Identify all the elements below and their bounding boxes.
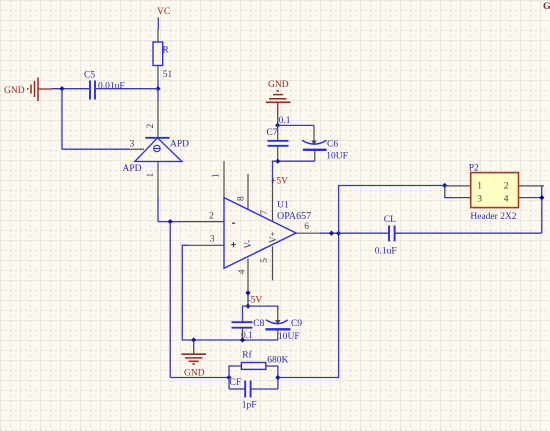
capacitor C7 xyxy=(268,141,289,146)
header P2 pin 2 stub xyxy=(519,185,545,187)
svg-text:3: 3 xyxy=(130,140,135,150)
wire R to node xyxy=(157,79,159,89)
wire node to pin7 xyxy=(273,161,278,185)
svg-text:U1: U1 xyxy=(277,200,289,210)
power port GND left xyxy=(4,78,51,102)
capacitor C8 xyxy=(232,322,253,328)
wire node to APD xyxy=(157,89,159,102)
node output B xyxy=(336,231,341,236)
diode APD pin 2 xyxy=(157,102,159,138)
wire GND stem xyxy=(193,340,195,349)
capacitor C6 pin bottom xyxy=(314,151,316,162)
wire P2 right branch xyxy=(541,186,543,233)
node inverting input junction xyxy=(168,219,173,224)
svg-text:0.1: 0.1 xyxy=(279,116,291,126)
capacitor C7 pin top xyxy=(277,125,279,140)
node ground rail / GND stem xyxy=(191,337,196,342)
svg-text:C9: C9 xyxy=(291,319,302,329)
resistor R1 pin bottom xyxy=(157,66,159,80)
svg-text:1: 1 xyxy=(146,173,156,178)
capacitor C9 pin bottom xyxy=(277,330,279,340)
svg-text:G: G xyxy=(543,1,550,12)
op-amp U1 pin 5 xyxy=(272,246,274,280)
node output A xyxy=(329,231,334,236)
svg-text:8: 8 xyxy=(236,196,246,201)
op-amp U1 inverting marker xyxy=(232,222,235,224)
svg-text:3: 3 xyxy=(477,195,482,205)
resistor R1 pin top xyxy=(157,30,159,43)
svg-text:VC: VC xyxy=(157,7,170,17)
diode APD xyxy=(135,138,182,162)
resistor R1 xyxy=(153,42,163,66)
svg-text:2: 2 xyxy=(146,124,156,129)
svg-text:2: 2 xyxy=(504,181,509,191)
svg-text:0.01uF: 0.01uF xyxy=(98,81,125,91)
wire top rail C8/C9 xyxy=(243,306,278,322)
op-amp U1 pin 4 xyxy=(247,259,249,293)
capacitor C8 pin bottom xyxy=(242,329,244,341)
svg-text:10UF: 10UF xyxy=(278,332,300,342)
svg-text:C5: C5 xyxy=(84,71,95,81)
svg-text:APD: APD xyxy=(123,164,142,174)
wire CF left xyxy=(229,388,244,390)
node Rf/CF right xyxy=(275,375,280,380)
svg-text:Header 2X2: Header 2X2 xyxy=(470,212,516,222)
svg-text:CL: CL xyxy=(384,215,396,225)
diode APD pin 3 xyxy=(129,148,145,150)
power port -5V xyxy=(248,296,263,306)
svg-text:V-: V- xyxy=(243,240,253,249)
wire node down to APD pin3 xyxy=(62,89,129,150)
header P2 body xyxy=(471,173,519,208)
node +5V junction xyxy=(275,159,280,164)
svg-text:2: 2 xyxy=(209,212,214,222)
node P2 pins 2-4 junction xyxy=(539,195,544,200)
wire pin4 to -5V node xyxy=(247,293,249,306)
node C8/C9 top rail junction xyxy=(245,304,250,309)
op-amp U1 non-inverting marker xyxy=(231,242,236,247)
capacitor C9 xyxy=(265,320,290,330)
wire C6 branch top xyxy=(278,124,314,126)
node C5/feedback junction xyxy=(59,86,64,91)
svg-text:3: 3 xyxy=(210,235,215,245)
op-amp U1 pin 8 xyxy=(247,174,249,210)
op-amp U1 pin 1 xyxy=(223,161,225,198)
svg-text:0.1uF: 0.1uF xyxy=(375,246,397,256)
header P2 pin 3 stub xyxy=(452,197,471,199)
capacitor C9 pin arrow xyxy=(275,320,280,325)
diode APD pin 1 xyxy=(157,162,159,197)
svg-text:+5V: +5V xyxy=(271,177,288,187)
power port GND top xyxy=(266,80,291,114)
wire Rf left xyxy=(229,366,241,389)
svg-text:GND: GND xyxy=(184,368,205,378)
svg-text:V+: V+ xyxy=(268,231,278,243)
power port VC xyxy=(157,7,170,30)
wire pin6 to output node xyxy=(320,232,339,234)
svg-text:C7: C7 xyxy=(267,128,278,138)
capacitor C5 xyxy=(90,81,95,100)
op-amp U1 pin 3 xyxy=(189,244,225,246)
wire C5 to node xyxy=(96,88,158,90)
svg-text:51: 51 xyxy=(163,70,173,80)
svg-text:5: 5 xyxy=(260,258,270,263)
svg-text:680K: 680K xyxy=(267,355,288,365)
svg-text:1: 1 xyxy=(211,173,221,178)
op-amp U1 pin 7 xyxy=(272,185,274,222)
wire CF right xyxy=(252,388,278,390)
svg-text:APD: APD xyxy=(170,140,189,150)
node R/C5/APD junction xyxy=(155,86,160,91)
svg-text:C6: C6 xyxy=(327,140,338,150)
capacitor CL xyxy=(389,226,395,242)
wire GND to C5 xyxy=(51,88,89,90)
header P2 pin 4 stub xyxy=(519,197,545,199)
resistor Rf xyxy=(241,363,265,370)
wire APD to op-amp pin2 xyxy=(158,197,180,222)
op-amp U1 body xyxy=(224,198,296,269)
wire output up to P2 rail xyxy=(339,186,445,234)
wire CL to P2 right branch xyxy=(396,232,542,234)
svg-text:R: R xyxy=(163,46,170,56)
wire feedback right xyxy=(278,233,339,377)
node -5V xyxy=(245,290,250,295)
svg-text:4: 4 xyxy=(237,269,247,274)
svg-text:1: 1 xyxy=(477,181,482,191)
power port GND bottom xyxy=(181,349,206,379)
wire P2 left branch xyxy=(445,186,453,198)
node ground rail / C8 xyxy=(240,337,245,342)
svg-text:C8: C8 xyxy=(253,319,264,329)
svg-text:GND: GND xyxy=(4,86,25,96)
wire Rf right xyxy=(266,366,278,389)
svg-text:7: 7 xyxy=(260,210,270,215)
node C7/C6 top junction xyxy=(275,123,280,128)
wire output to CL xyxy=(339,232,389,234)
wire feedback left vertical xyxy=(170,222,229,378)
svg-text:-5V: -5V xyxy=(248,296,263,306)
svg-text:4: 4 xyxy=(504,195,509,205)
node Rf/CF left xyxy=(226,375,231,380)
wire C6 branch bottom xyxy=(278,160,315,162)
op-amp U1 pin 2 xyxy=(179,221,224,223)
svg-text:6: 6 xyxy=(304,222,309,232)
capacitor C7 pin bottom xyxy=(277,147,279,162)
svg-text:GND: GND xyxy=(268,80,289,90)
op-amp U1 pin 6 xyxy=(296,232,321,234)
svg-text:P2: P2 xyxy=(469,164,479,174)
svg-text:OPA657: OPA657 xyxy=(277,211,311,222)
wire GND to C7 node xyxy=(277,114,279,126)
capacitor C6 xyxy=(302,140,327,150)
wire pin3 down to ground rail xyxy=(182,245,277,340)
svg-text:CF: CF xyxy=(230,378,242,388)
svg-text:10UF: 10UF xyxy=(326,152,348,162)
svg-text:Rf: Rf xyxy=(242,350,252,361)
svg-text:1pF: 1pF xyxy=(242,400,257,410)
capacitor CF xyxy=(245,381,250,398)
header P2 pin 1 stub xyxy=(445,185,471,187)
node P2 pins 1-3 junction xyxy=(442,183,447,188)
capacitor C6 pin arrow xyxy=(311,141,316,146)
